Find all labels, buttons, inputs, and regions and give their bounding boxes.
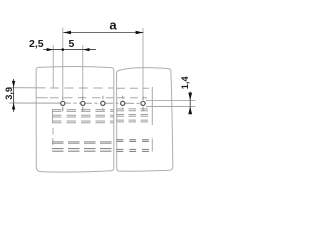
pin row centerline bbox=[9, 102, 58, 104]
dimension a bbox=[63, 17, 143, 34]
bold dashed rows right block bbox=[117, 140, 153, 152]
svg-text:3,9: 3,9 bbox=[4, 87, 14, 100]
inner vertical left block bbox=[52, 109, 55, 145]
body outline left block bbox=[36, 67, 114, 173]
hidden dashed row y=97.6 bbox=[36, 97, 147, 99]
centerline pin4 bbox=[122, 96, 124, 112]
hidden edge line y=88 across blocks bbox=[9, 87, 149, 90]
bold dashed rows left block bbox=[52, 142, 112, 151]
dimension 1,4 bbox=[146, 76, 196, 115]
svg-text:a: a bbox=[109, 17, 117, 32]
extension line 2,5 left (x=53) bbox=[52, 45, 54, 89]
extension/centerline pin5 bbox=[142, 28, 144, 96]
dimension 2,5 and 5 bbox=[29, 38, 96, 51]
svg-text:5: 5 bbox=[68, 38, 74, 50]
pin circles bbox=[61, 101, 145, 105]
dashed rows right block bbox=[117, 109, 150, 122]
body outline right block bbox=[117, 68, 173, 172]
svg-text:1,4: 1,4 bbox=[180, 76, 190, 90]
dashed rows left block bbox=[52, 110, 114, 123]
dimension 3,9 bbox=[4, 79, 16, 112]
extension/centerline pin1 bbox=[62, 28, 64, 97]
svg-text:2,5: 2,5 bbox=[29, 38, 44, 50]
extension/centerline pin2 bbox=[82, 45, 84, 96]
inner vertical right block bbox=[151, 87, 153, 152]
centerline pin3 bbox=[102, 96, 104, 112]
